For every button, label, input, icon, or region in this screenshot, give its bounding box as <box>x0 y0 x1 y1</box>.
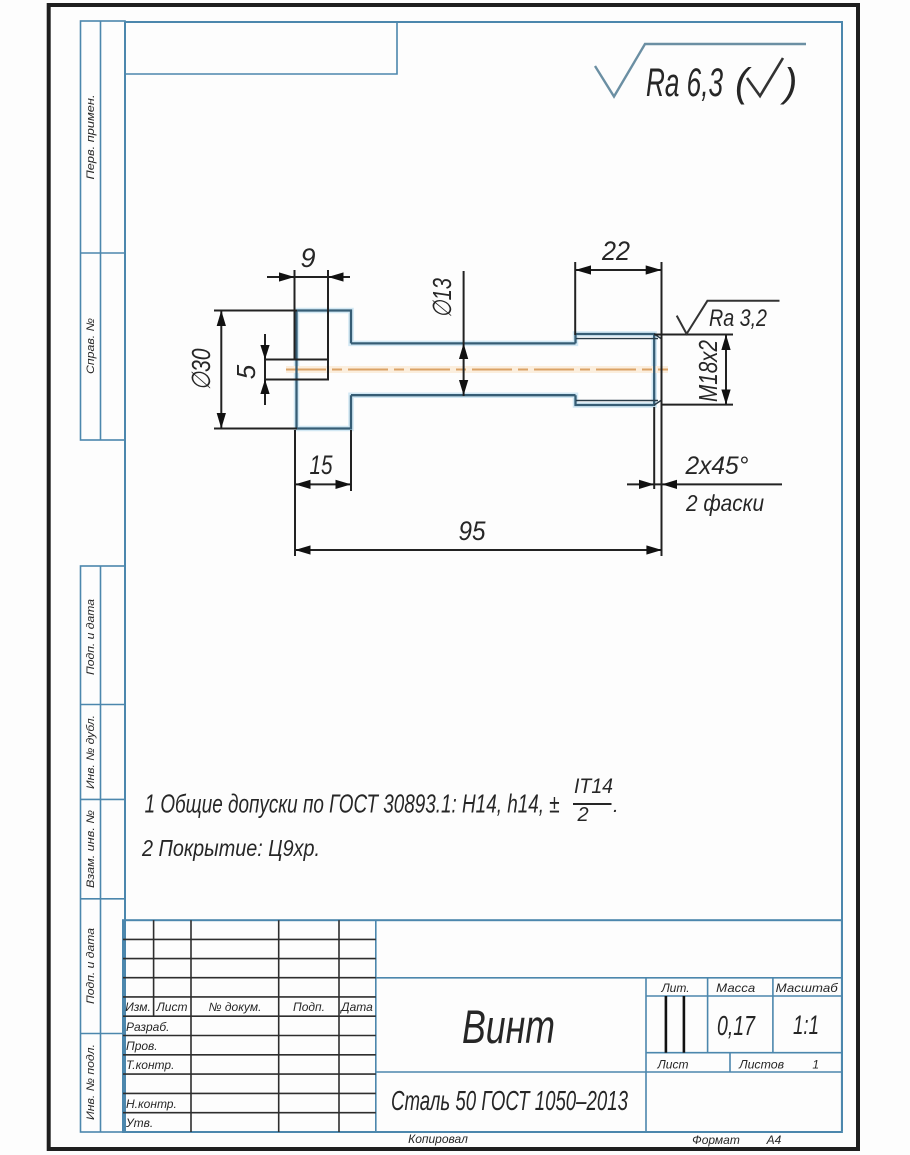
svg-text:Инв. № дубл.: Инв. № дубл. <box>85 715 97 789</box>
svg-text:Подп.: Подп. <box>293 1000 325 1014</box>
svg-text:Формат: Формат <box>692 1133 740 1147</box>
top-left reversed designation box <box>125 23 397 74</box>
svg-text:Т.контр.: Т.контр. <box>126 1058 174 1072</box>
dimension 2x45 chamfer <box>627 407 782 489</box>
centerline halo <box>286 366 668 373</box>
svg-text:№ докум.: № докум. <box>209 1000 262 1014</box>
shaft outline <box>351 343 576 395</box>
dimension d30 <box>214 311 297 429</box>
svg-text:2 Покрытие: Ц9хр.: 2 Покрытие: Ц9хр. <box>141 835 320 861</box>
dimension d13 <box>463 271 465 396</box>
svg-text:Листов: Листов <box>738 1058 784 1072</box>
top-right general roughness symbol <box>595 44 806 97</box>
svg-text:Изм.: Изм. <box>125 1000 151 1014</box>
svg-text:Перв. примен.: Перв. примен. <box>85 95 97 180</box>
svg-text:Масса: Масса <box>716 981 755 995</box>
svg-text:Лит.: Лит. <box>660 981 689 995</box>
chamfer edges <box>654 334 662 405</box>
svg-text:А4: А4 <box>766 1133 782 1147</box>
svg-text:Копировал: Копировал <box>408 1132 468 1146</box>
dimension 9 <box>267 270 350 360</box>
center line <box>286 369 668 371</box>
svg-text:Взам. инв. №: Взам. инв. № <box>85 810 97 888</box>
title block main verticals <box>376 920 842 1132</box>
svg-text:Справ. №: Справ. № <box>85 318 97 374</box>
svg-text:Подп. и дата: Подп. и дата <box>85 928 97 1004</box>
svg-text:22: 22 <box>601 236 630 266</box>
svg-text:Инв. № подл.: Инв. № подл. <box>85 1044 97 1120</box>
svg-text:∅13: ∅13 <box>427 278 457 318</box>
svg-text:Ra 3,2: Ra 3,2 <box>709 305 767 332</box>
dimension 15 <box>295 430 351 556</box>
roughness Ra 3,2 <box>677 301 780 334</box>
svg-text:1: 1 <box>812 1058 819 1072</box>
svg-text:Пров.: Пров. <box>126 1039 158 1053</box>
svg-text:Лист: Лист <box>156 1000 188 1014</box>
small check inside parens <box>747 58 783 96</box>
svg-text:Лист: Лист <box>657 1058 689 1072</box>
svg-text:Утв.: Утв. <box>125 1116 153 1130</box>
svg-text:Разраб.: Разраб. <box>126 1020 169 1034</box>
svg-text:Подп. и дата: Подп. и дата <box>85 599 97 675</box>
dimension 95 <box>295 549 662 551</box>
title block outer border <box>123 920 842 1132</box>
svg-text:∅30: ∅30 <box>186 348 216 390</box>
dimension 22 <box>575 262 661 556</box>
svg-text:Н.контр.: Н.контр. <box>126 1097 177 1111</box>
svg-text:.: . <box>613 795 619 817</box>
svg-text:9: 9 <box>300 243 315 273</box>
svg-text:Масштаб: Масштаб <box>776 981 839 995</box>
svg-text:0,17: 0,17 <box>717 1010 756 1041</box>
svg-text:Дата: Дата <box>339 1000 373 1014</box>
thread minor diameter lines <box>576 339 658 401</box>
screw head outline <box>297 311 352 429</box>
svg-text:Ra 6,3: Ra 6,3 <box>646 61 723 105</box>
svg-text:М18х2: М18х2 <box>693 340 723 402</box>
part outline halo <box>297 311 655 429</box>
left column block 2 <box>81 566 126 1132</box>
thread section outline (major dia) <box>576 334 655 405</box>
dimension 5 <box>264 334 266 405</box>
svg-text:2х45°: 2х45° <box>685 452 749 480</box>
Lit cell black dividers <box>665 996 668 1053</box>
dimension M18x2 <box>654 335 733 405</box>
change table lines (dark) <box>123 920 376 1132</box>
svg-text:2: 2 <box>576 804 588 826</box>
left column block 1 (Перв. примен. / Справ. №) <box>81 21 126 440</box>
svg-text:5: 5 <box>231 364 261 379</box>
head slot <box>265 360 328 380</box>
svg-text:95: 95 <box>459 516 487 546</box>
svg-text:Винт: Винт <box>462 1000 555 1053</box>
svg-text:IT14: IT14 <box>574 775 613 798</box>
svg-text:15: 15 <box>310 450 334 480</box>
inner blue frame <box>125 22 842 1131</box>
svg-text:Сталь 50 ГОСТ 1050–2013: Сталь 50 ГОСТ 1050–2013 <box>391 1085 628 1116</box>
svg-text:1:1: 1:1 <box>793 1010 819 1040</box>
svg-text:2 фаски: 2 фаски <box>685 490 764 516</box>
svg-text:1 Общие допуски по ГОСТ 30893.: 1 Общие допуски по ГОСТ 30893.1: Н14, h1… <box>145 789 560 819</box>
